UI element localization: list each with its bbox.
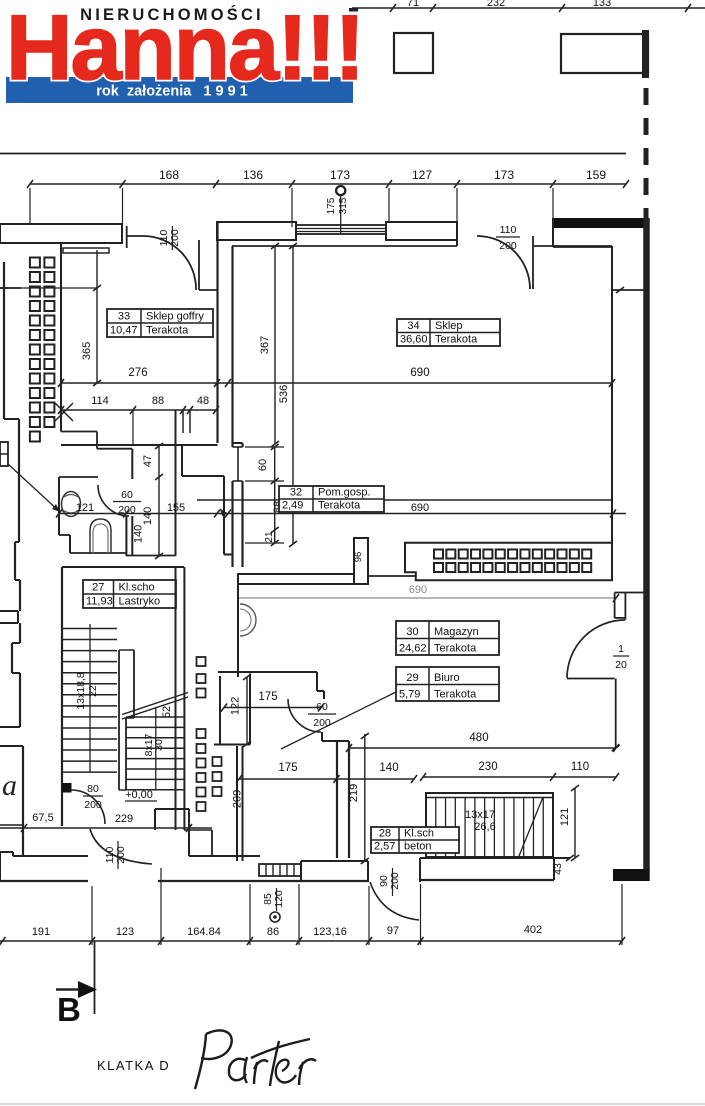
svg-text:48: 48 — [197, 395, 209, 407]
right outer wall thick — [643, 218, 650, 881]
room 34 right wall inner — [611, 246, 613, 580]
svg-text:a: a — [2, 769, 17, 802]
inner face of top wall — [232, 245, 457, 247]
wall band to pom.gosp with door — [233, 442, 243, 444]
svg-text:20: 20 — [615, 659, 627, 671]
svg-text:beton: beton — [404, 841, 432, 853]
svg-text:52: 52 — [161, 706, 173, 718]
svg-text:28: 28 — [379, 828, 391, 840]
room 34 south wall block with squares — [405, 543, 613, 581]
door arc right — [567, 620, 625, 678]
door 60/200 wc arc — [98, 485, 129, 516]
svg-text:480: 480 — [469, 732, 488, 744]
svg-text:Sklep goffry: Sklep goffry — [146, 311, 204, 323]
section arrow — [56, 988, 80, 991]
svg-text:200: 200 — [389, 872, 401, 890]
dim 121 vertical right — [574, 788, 576, 858]
svg-text:120: 120 — [273, 890, 285, 908]
cross scribble at wall corner — [55, 403, 73, 421]
svg-text:123: 123 — [116, 926, 134, 938]
wc room outline — [59, 476, 98, 478]
hall pocket walls — [181, 445, 183, 476]
svg-text:B: B — [57, 991, 81, 1028]
handwritten Parter — [195, 1034, 206, 1089]
svg-text:5,79: 5,79 — [399, 689, 420, 701]
top wall band middle — [217, 222, 296, 240]
svg-text:30: 30 — [153, 739, 165, 751]
extension line y=288 — [0, 287, 97, 289]
svg-text:Terakota: Terakota — [318, 500, 361, 512]
dim 230 110 — [423, 776, 616, 778]
svg-text:133: 133 — [593, 0, 611, 9]
room 33 left wall — [60, 243, 62, 432]
svg-text:2,57: 2,57 — [374, 841, 395, 853]
svg-text:13x18,8: 13x18,8 — [75, 672, 87, 710]
svg-text:175: 175 — [326, 197, 337, 214]
svg-text:11,93: 11,93 — [86, 596, 113, 608]
L wall below pom.gosp — [238, 574, 354, 584]
svg-text:2,49: 2,49 — [282, 500, 303, 512]
svg-text:1: 1 — [618, 643, 624, 655]
svg-text:+0,00: +0,00 — [125, 789, 153, 801]
svg-text:173: 173 — [494, 168, 514, 182]
stair run2 center guide — [155, 708, 157, 790]
room 30 label table — [396, 621, 499, 655]
svg-text:690: 690 — [409, 584, 427, 596]
notch at right wall — [612, 289, 645, 291]
stairs 13x17 block — [426, 793, 553, 857]
svg-text:276: 276 — [128, 367, 147, 379]
dim 536 vertical — [292, 246, 294, 544]
west wall of room 29 corridor — [219, 676, 221, 745]
svg-text:402: 402 — [524, 924, 542, 936]
left outer wall jagged — [3, 262, 5, 419]
room 30 left wall — [237, 576, 239, 677]
door 80/200 hinge block — [62, 783, 72, 793]
extension verticals bottom — [91, 886, 93, 945]
svg-text:29: 29 — [406, 672, 418, 684]
corridor bottom wall — [126, 555, 176, 557]
svg-text:60: 60 — [316, 701, 328, 713]
pointer line to WC — [8, 464, 60, 512]
room 27 label table — [83, 580, 176, 608]
door 110/200 top-right arc — [477, 236, 530, 289]
svg-text:27: 27 — [92, 582, 104, 594]
room 33 right wall — [216, 222, 218, 443]
door 110/200 top-left arc — [144, 236, 197, 290]
stair diagonal — [519, 797, 543, 856]
stair run1 center guide — [89, 624, 91, 772]
room 33 south wall — [61, 444, 218, 446]
dim 365 vertical — [96, 250, 98, 383]
svg-text:33: 33 — [118, 311, 130, 323]
faint dim 690 line — [238, 597, 616, 599]
dim 276 and 690 line — [61, 382, 612, 384]
svg-text:140: 140 — [133, 525, 145, 543]
svg-text:Kl.scho: Kl.scho — [119, 582, 155, 594]
svg-text:Terakota: Terakota — [434, 689, 477, 701]
room 29 east jamb — [321, 732, 323, 741]
svg-text:200: 200 — [313, 717, 331, 729]
svg-text:690: 690 — [411, 502, 429, 514]
window in top wall — [296, 225, 386, 234]
svg-text:127: 127 — [412, 168, 432, 182]
section mark B line — [94, 941, 96, 1014]
room 27 walls — [62, 566, 184, 568]
top right rectangle with thick edge — [561, 34, 648, 73]
svg-text:173: 173 — [330, 168, 350, 182]
svg-text:168: 168 — [159, 168, 179, 182]
wc door jambs — [125, 516, 127, 556]
svg-text:121: 121 — [559, 808, 571, 826]
long horizontal line — [0, 153, 626, 155]
svg-text:43: 43 — [552, 863, 564, 875]
svg-text:690: 690 — [410, 367, 429, 379]
dim line 114 88 48 — [61, 409, 216, 411]
svg-text:175: 175 — [278, 762, 297, 774]
stairs run 1 treads — [62, 628, 117, 630]
svg-text:60: 60 — [257, 459, 269, 471]
corridor wall below — [236, 746, 238, 861]
top wall band left — [0, 224, 122, 243]
corridor end walls — [184, 829, 212, 831]
room 33 inner ledge — [63, 248, 109, 253]
svg-text:536: 536 — [278, 385, 290, 403]
svg-text:96: 96 — [353, 552, 364, 563]
wall block right of door — [155, 808, 189, 810]
svg-text:155: 155 — [167, 502, 185, 514]
svg-text:13x17: 13x17 — [465, 809, 495, 821]
svg-text:367: 367 — [259, 336, 271, 354]
corridor right wall — [175, 410, 177, 556]
svg-text:80: 80 — [87, 783, 99, 795]
stair mid newel wall — [118, 650, 120, 790]
door 60/200 room 29 arc — [288, 699, 321, 732]
logo background box — [0, 0, 353, 104]
thick corner bottom right — [613, 869, 649, 881]
top dimension line 71 232 133 — [352, 7, 705, 9]
dim 122 — [246, 677, 248, 744]
svg-text:121: 121 — [76, 502, 94, 514]
small box on left edge — [0, 442, 8, 466]
svg-text:Lastryko: Lastryko — [119, 596, 161, 608]
door 80/200 arc — [71, 790, 105, 824]
svg-text:123,16: 123,16 — [313, 926, 347, 938]
stairs run 2 treads — [126, 716, 184, 718]
svg-text:Terakota: Terakota — [434, 643, 477, 655]
room 29 east wall band — [336, 741, 338, 858]
top wall band after window — [386, 222, 457, 240]
dim 175 room29 — [224, 707, 321, 709]
svg-text:10,47: 10,47 — [110, 325, 138, 337]
svg-text:Hanna!!!: Hanna!!! — [6, 0, 363, 99]
wall between window and door — [301, 860, 368, 862]
svg-text:110: 110 — [571, 761, 589, 773]
pointer from table 29 — [281, 692, 396, 749]
radiator squares grid top-left — [30, 258, 40, 268]
dashed boundary line right — [644, 88, 649, 218]
svg-text:71: 71 — [407, 0, 419, 9]
room 34 label table — [397, 319, 500, 346]
wc corridor walls — [61, 431, 97, 433]
svg-text:34: 34 — [407, 320, 419, 332]
room 32 label table — [279, 486, 384, 512]
bottom wall left block — [0, 851, 13, 853]
door 90/200 arc — [370, 882, 419, 920]
survey point circle 175 315 — [336, 186, 345, 195]
logo blue bar rok zalozenia 1991 — [6, 77, 353, 103]
svg-text:232: 232 — [487, 0, 505, 9]
toilet — [62, 492, 81, 517]
svg-text:60: 60 — [121, 489, 133, 501]
line connecting to block — [368, 575, 416, 577]
svg-text:Sklep: Sklep — [435, 320, 463, 332]
svg-text:Biuro: Biuro — [434, 672, 460, 684]
svg-text:140: 140 — [142, 507, 154, 525]
ventilation squares two rows — [434, 550, 443, 559]
dim 175 140 line — [239, 778, 414, 780]
svg-text:200: 200 — [84, 799, 102, 811]
handrail diagonals — [122, 697, 188, 719]
svg-text:175: 175 — [258, 691, 277, 703]
svg-text:Magazyn: Magazyn — [434, 626, 479, 638]
svg-text:191: 191 — [32, 926, 50, 938]
small mark top right of logo — [349, 8, 358, 12]
svg-text:Kl.sch: Kl.sch — [404, 828, 434, 840]
room 33 label table — [107, 309, 213, 337]
dim line 121 155 690 horizontal — [59, 513, 626, 515]
svg-text:136: 136 — [243, 168, 263, 182]
dim 367 vertical — [274, 246, 276, 444]
svg-text:114: 114 — [91, 395, 109, 407]
svg-text:315: 315 — [338, 197, 349, 214]
svg-text:230: 230 — [478, 761, 497, 773]
room 29 north wall — [218, 671, 317, 673]
extension lines from dim to wall — [29, 188, 31, 224]
dim 229 line — [0, 827, 212, 829]
wall right of door 90 — [419, 858, 421, 882]
bottom dimension line — [0, 940, 622, 942]
svg-text:21: 21 — [264, 531, 275, 543]
radiator squares corridor — [197, 657, 206, 666]
svg-text:209: 209 — [232, 790, 244, 808]
svg-text:KLATKA D: KLATKA D — [97, 1058, 170, 1073]
window 85/120 — [259, 864, 301, 876]
thick top-right wall — [553, 218, 648, 228]
svg-text:Terakota: Terakota — [435, 334, 478, 346]
door 110/200 bottom arc — [90, 829, 152, 864]
right door jamb top — [614, 593, 616, 619]
room 28 label table — [371, 827, 459, 853]
dim 480 — [349, 747, 616, 749]
arch fixture — [90, 519, 111, 553]
svg-text:97: 97 — [387, 925, 399, 937]
svg-text:36,60: 36,60 — [400, 334, 428, 346]
svg-text:110: 110 — [500, 224, 517, 236]
wall right of door — [198, 240, 200, 290]
svg-text:88: 88 — [152, 395, 164, 407]
dim 47 140 vertical — [158, 446, 160, 556]
svg-text:219: 219 — [348, 784, 360, 802]
svg-text:229: 229 — [115, 813, 133, 825]
room 29 label table — [396, 667, 499, 701]
svg-text:26,6: 26,6 — [474, 821, 495, 833]
sink semicircle — [240, 604, 256, 636]
dim 219 — [364, 734, 366, 861]
svg-text:67,5: 67,5 — [32, 812, 53, 824]
wall below door — [615, 679, 617, 749]
svg-text:140: 140 — [379, 762, 398, 774]
svg-text:159: 159 — [586, 168, 606, 182]
svg-text:Pom.gosp.: Pom.gosp. — [318, 487, 371, 499]
svg-text:47: 47 — [142, 455, 154, 467]
svg-text:Terakota: Terakota — [146, 325, 189, 337]
svg-text:24,62: 24,62 — [399, 643, 427, 655]
faint bottom page line — [0, 1103, 705, 1105]
dimension line 168 136 173 127 173 159 — [30, 183, 626, 185]
svg-text:32: 32 — [290, 487, 302, 499]
dim chain 60 88 21 — [274, 447, 276, 543]
svg-text:30: 30 — [406, 626, 418, 638]
svg-text:365: 365 — [81, 342, 93, 360]
svg-text:122: 122 — [230, 697, 242, 715]
svg-text:164.84: 164.84 — [187, 926, 221, 938]
svg-text:22: 22 — [87, 685, 99, 697]
svg-text:200: 200 — [115, 846, 127, 864]
svg-text:86: 86 — [267, 926, 279, 938]
chimney square — [394, 33, 433, 73]
